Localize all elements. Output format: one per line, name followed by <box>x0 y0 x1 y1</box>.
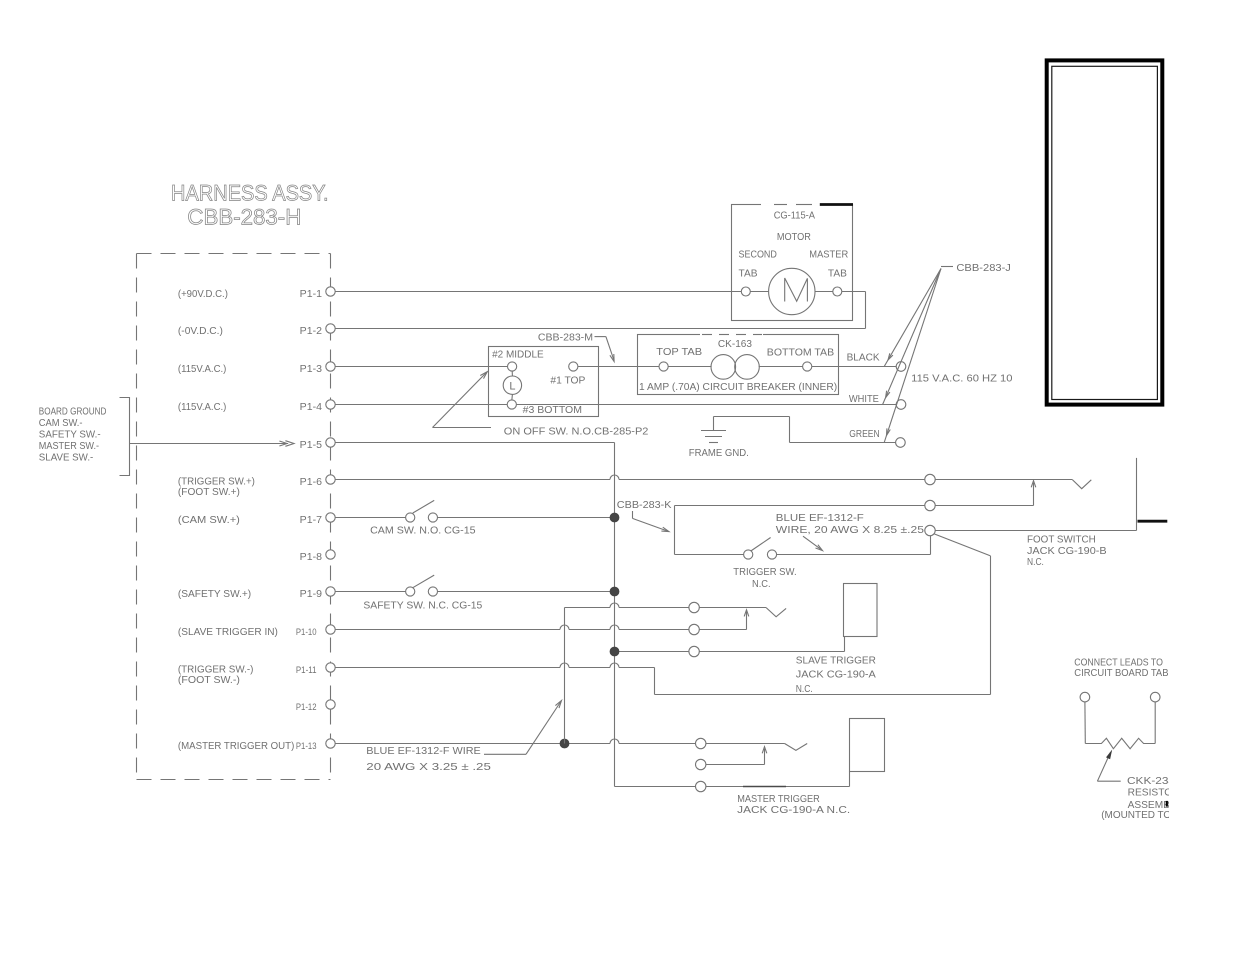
wire green lead to frame ground <box>714 417 896 443</box>
svg-text:(-0V.D.C.): (-0V.D.C.) <box>178 325 223 337</box>
label TRIGGER SW. N.C. <box>733 566 796 590</box>
foot jack sleeve contact circle <box>925 525 935 535</box>
master jack N.C. contact row wire <box>706 747 767 765</box>
junction dot bus / safety switch <box>610 587 619 596</box>
label BLUE EF-1312-F WIRE 8.25 with leader <box>776 512 924 551</box>
svg-text:P1-3: P1-3 <box>300 364 323 375</box>
master jack sleeve contact circle <box>696 781 706 791</box>
switch contact #1 TOP <box>569 362 578 371</box>
slave jack tip contact circle <box>689 624 699 634</box>
junction dot P1-13 / slave N.C. riser <box>560 739 569 748</box>
foot jack tip contact circle <box>925 474 935 484</box>
black frame rectangle <box>1047 60 1163 404</box>
slave jack sleeve contact circle <box>689 646 699 656</box>
wire board ground to P1-5 with arrow <box>130 441 295 447</box>
svg-text:TOP TAB: TOP TAB <box>656 346 702 358</box>
label CONNECT LEADS TO CIRCUIT BOARD TAB <box>1074 656 1168 679</box>
master jack plug symbol <box>785 744 808 751</box>
pin P1-8 terminal <box>326 550 335 559</box>
svg-text:P1-1: P1-1 <box>300 289 323 300</box>
pin P1-13 terminal <box>326 739 335 748</box>
svg-text:BLUE EF-1312-F: BLUE EF-1312-F <box>776 512 864 524</box>
breaker box CK-163 <box>638 335 839 395</box>
wire P1-10 to slave trigger jack tip <box>335 629 560 631</box>
trigger switch SW3 N.C. <box>744 538 777 560</box>
callout CBB-283-J leader arrows <box>883 267 953 443</box>
pin P1-5 terminal <box>326 438 335 447</box>
callout CBB-283-M leader <box>538 332 614 362</box>
svg-text:JACK CG-190-A N.C.: JACK CG-190-A N.C. <box>737 804 850 816</box>
wire P1-7 to cam switch <box>335 517 406 519</box>
motor M letter <box>785 278 808 302</box>
svg-text:SLAVE SW.-: SLAVE SW.- <box>39 453 94 464</box>
wire P1-5 ground bus <box>335 443 850 787</box>
svg-text:WHITE: WHITE <box>849 393 879 405</box>
pin P1-9 terminal <box>326 587 335 596</box>
terminal circle BLACK lead <box>896 362 906 372</box>
harness CBB-283-K loop bottom wire left <box>675 554 744 556</box>
svg-text:P1-7: P1-7 <box>300 515 323 526</box>
label SLAVE TRIGGER JACK CG-190-A N.C. <box>796 654 876 695</box>
pin P1-10 terminal <box>326 625 335 634</box>
wire top tab to breaker coils <box>668 366 711 368</box>
motor box CG-115-A <box>732 205 853 321</box>
svg-text:CBB-283-J: CBB-283-J <box>956 262 1011 274</box>
foot jack N.C. contact circle <box>925 500 935 510</box>
svg-text:WIRE, 20 AWG X 8.25 ±.25: WIRE, 20 AWG X 8.25 ±.25 <box>776 524 924 536</box>
svg-text:(115V.A.C.): (115V.A.C.) <box>178 363 227 375</box>
wire ground bus to slave jack sleeve <box>615 637 845 652</box>
svg-text:TAB: TAB <box>739 268 758 280</box>
wire foot jack sleeve lead <box>936 458 1137 531</box>
svg-text:BLACK: BLACK <box>847 352 880 364</box>
svg-text:P1-12: P1-12 <box>296 702 317 713</box>
svg-text:#2 MIDDLE: #2 MIDDLE <box>492 348 544 360</box>
wire P1-1 to motor SECOND TAB <box>335 291 742 293</box>
slave jack N.C. contact arrow <box>744 610 749 630</box>
svg-text:(MASTER TRIGGER OUT): (MASTER TRIGGER OUT) <box>178 740 294 752</box>
svg-text:(MOUNTED TO: (MOUNTED TO <box>1101 809 1171 821</box>
breaker BOTTOM TAB terminal <box>803 362 812 371</box>
resistor lead terminal right <box>1150 692 1160 702</box>
svg-text:P1-4: P1-4 <box>300 402 323 413</box>
svg-text:BOARD GROUND: BOARD GROUND <box>39 407 107 418</box>
svg-text:GREEN: GREEN <box>849 428 879 440</box>
svg-text:N.C.: N.C. <box>796 683 813 695</box>
thick mark on motor box top <box>820 203 853 206</box>
slave jack N.C. contact circle <box>689 602 699 612</box>
terminal circle GREEN lead <box>896 438 906 448</box>
wire P1-2 to motor MASTER TAB <box>335 292 866 329</box>
pin P1-3 terminal <box>326 362 335 371</box>
switch contact #3 BOTTOM <box>507 400 516 409</box>
svg-text:N.C.: N.C. <box>752 578 771 590</box>
slave jack N.C. riser wire <box>564 608 566 744</box>
callout CBB-283-K leader <box>617 499 672 532</box>
svg-text:BOTTOM TAB: BOTTOM TAB <box>767 347 834 359</box>
wire #2 contact to lamp <box>511 371 513 376</box>
svg-text:MASTER: MASTER <box>809 249 848 261</box>
breaker element circles <box>711 355 759 380</box>
node BOARD GROUND label list <box>39 407 107 464</box>
svg-text:SLAVE TRIGGER: SLAVE TRIGGER <box>796 654 876 666</box>
wire slave jack N.C. contact row <box>565 603 787 617</box>
svg-text:TRIGGER SW.: TRIGGER SW. <box>733 566 796 578</box>
master jack tip contact circle <box>696 738 706 748</box>
svg-text:SECOND: SECOND <box>739 249 778 261</box>
svg-text:115 V.A.C. 60 HZ 10: 115 V.A.C. 60 HZ 10 <box>911 373 1012 385</box>
wire cam switch to ground bus <box>438 517 615 519</box>
callout CKK-234 resistor assembly leader <box>1097 750 1181 821</box>
svg-text:SAFETY SW. N.C. CG-15: SAFETY SW. N.C. CG-15 <box>363 599 482 611</box>
svg-text:(SAFETY SW.+): (SAFETY SW.+) <box>178 588 251 600</box>
wire second tab to motor <box>750 291 768 293</box>
wire motor to master tab <box>815 291 833 293</box>
pin P1-4 terminal <box>326 400 335 409</box>
svg-text:FOOT SWITCH: FOOT SWITCH <box>1027 534 1096 546</box>
switch contact #2 MIDDLE <box>507 362 516 371</box>
svg-text:FRAME GND.: FRAME GND. <box>689 447 749 459</box>
svg-text:CBB-283-M: CBB-283-M <box>538 332 593 344</box>
svg-text:MOTOR: MOTOR <box>777 231 811 243</box>
ground symbol FRAME GND. <box>701 417 726 443</box>
wire P1-4 to WHITE lead <box>335 404 896 406</box>
bracket for board ground group <box>120 398 130 476</box>
on/off switch box CB-285-P2 <box>489 347 599 417</box>
pin P1-1 terminal <box>326 287 335 296</box>
svg-text:P1-10: P1-10 <box>296 627 317 638</box>
pin P1-2 terminal <box>326 324 335 333</box>
pin P1-11 terminal <box>326 663 335 672</box>
svg-text:#1 TOP: #1 TOP <box>550 375 585 387</box>
lamp L1 circle <box>503 376 521 394</box>
svg-text:CKK-234-: CKK-234- <box>1127 775 1180 787</box>
resistor R1 CKK-234 <box>1085 702 1155 749</box>
wire P1-13 to master trigger jack tip <box>335 743 610 745</box>
wire breaker BOTTOM TAB to BLACK lead <box>812 366 897 368</box>
svg-text:L: L <box>509 380 515 392</box>
svg-text:BLUE EF-1312-F WIRE: BLUE EF-1312-F WIRE <box>366 745 481 757</box>
pin P1-12 terminal <box>326 700 335 709</box>
junction dot bus / slave sleeve <box>610 647 619 656</box>
motor SECOND TAB terminal <box>741 287 750 296</box>
svg-text:ON OFF SW. N.O.CB-285-P2: ON OFF SW. N.O.CB-285-P2 <box>504 426 649 438</box>
svg-text:MASTER SW.-: MASTER SW.- <box>39 441 99 452</box>
svg-text:P1-9: P1-9 <box>300 589 323 600</box>
motor M1 circle <box>769 268 815 314</box>
wire P1-3 to on/off switch #2 MIDDLE <box>335 366 507 368</box>
svg-text:#3 BOTTOM: #3 BOTTOM <box>523 404 582 416</box>
svg-text:(FOOT SW.-): (FOOT SW.-) <box>178 674 240 686</box>
svg-text:P1-2: P1-2 <box>300 326 323 337</box>
svg-text:CIRCUIT BOARD TAB: CIRCUIT BOARD TAB <box>1074 667 1168 679</box>
svg-text:CBB-283-H: CBB-283-H <box>187 204 301 229</box>
svg-text:1 AMP (.70A) CIRCUIT BREAKER (: 1 AMP (.70A) CIRCUIT BREAKER (INNER) <box>639 381 837 393</box>
svg-text:MASTER TRIGGER: MASTER TRIGGER <box>737 793 820 805</box>
svg-text:P1-8: P1-8 <box>300 552 323 563</box>
wire lamp to #3 contact <box>511 395 514 400</box>
harness CBB-283-K loop bottom wire right <box>777 554 931 556</box>
svg-text:SAFETY SW.-: SAFETY SW.- <box>39 430 101 441</box>
thick mark near foot switch lead <box>1138 520 1168 523</box>
label FOOT SWITCH JACK CG-190-B N.C. <box>1027 534 1107 568</box>
master trigger jack sleeve frame <box>850 719 885 772</box>
svg-text:RESISTOR: RESISTOR <box>1128 787 1180 799</box>
harness CBB-283-K loop right wire <box>930 536 932 555</box>
svg-text:(CAM SW.+): (CAM SW.+) <box>178 514 240 526</box>
breaker TOP TAB terminal <box>659 362 668 371</box>
wire switch #1 TOP to breaker TOP TAB <box>578 366 659 368</box>
wire safety switch to ground bus <box>438 591 615 593</box>
svg-text:HARNESS ASSY.: HARNESS ASSY. <box>171 181 329 206</box>
slave trigger jack sleeve frame <box>844 584 878 637</box>
svg-text:P1-6: P1-6 <box>300 477 323 488</box>
svg-text:CK-163: CK-163 <box>718 338 752 350</box>
wire P1-11 to foot switch sleeve <box>335 534 991 695</box>
svg-text:TAB: TAB <box>828 268 847 280</box>
svg-text:CAM SW.-: CAM SW.- <box>39 418 83 429</box>
svg-text:(SLAVE TRIGGER IN): (SLAVE TRIGGER IN) <box>178 626 278 638</box>
svg-text:CG-115-A: CG-115-A <box>774 210 815 222</box>
svg-text:P1-13: P1-13 <box>296 741 317 752</box>
wire P1-9 to safety switch <box>335 591 406 593</box>
terminal circle WHITE lead <box>896 400 906 410</box>
connector P1 dashed outline <box>137 254 331 780</box>
callout BLUE EF-1312-F WIRE 3.25 leader <box>366 701 561 774</box>
label MASTER TRIGGER JACK CG-190-A N.C. <box>737 793 850 816</box>
svg-text:CAM SW. N.O. CG-15: CAM SW. N.O. CG-15 <box>370 524 476 536</box>
svg-text:20 AWG X 3.25 ± .25: 20 AWG X 3.25 ± .25 <box>366 761 491 773</box>
pin P1-7 terminal <box>326 513 335 522</box>
wire P1-6 to foot switch tip <box>335 475 1091 489</box>
harness CBB-283-K loop top wire <box>675 505 926 507</box>
motor MASTER TAB terminal <box>833 287 842 296</box>
junction dot bus / cam switch <box>610 513 619 522</box>
svg-text:CBB-283-K: CBB-283-K <box>617 499 672 511</box>
safety switch SW2 N.C. CG-15 <box>406 575 438 596</box>
svg-text:JACK CG-190-A: JACK CG-190-A <box>796 669 876 681</box>
svg-text:(115V.A.C.): (115V.A.C.) <box>178 401 227 413</box>
svg-text:N.C.: N.C. <box>1027 556 1044 568</box>
harness CBB-283-K loop left wire <box>674 506 676 555</box>
svg-text:(+90V.D.C.): (+90V.D.C.) <box>178 288 228 300</box>
cam switch SW1 N.O. CG-15 <box>406 500 438 522</box>
svg-text:P1-11: P1-11 <box>296 665 317 676</box>
callout ON OFF SW. N.O.CB-285-P2 leader <box>433 372 649 438</box>
svg-text:P1-5: P1-5 <box>300 440 323 451</box>
wire foot jack N.C. return with arrow <box>935 481 1036 506</box>
wire breaker coils to bottom tab <box>759 366 803 368</box>
svg-text:(FOOT SW.+): (FOOT SW.+) <box>178 486 240 498</box>
pin P1-6 terminal <box>326 475 335 484</box>
master jack N.C. contact circle <box>696 759 706 769</box>
resistor lead terminal left <box>1080 692 1090 702</box>
master sleeve row dark segment <box>743 786 786 788</box>
page cut mark <box>1166 801 1168 807</box>
